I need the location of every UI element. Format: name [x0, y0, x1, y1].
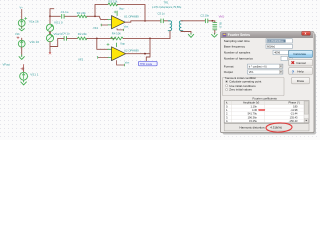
feedback wire up and over: [95, 4, 108, 16]
row2 capacitor C4: [64, 37, 66, 41]
group box: transient initial condition: [223, 77, 285, 95]
THD label box: [139, 61, 158, 66]
combo: number of samples: [273, 50, 292, 54]
svg-text:Phase (°): Phase (°): [289, 101, 300, 105]
svg-text:Vop: Vop: [119, 7, 124, 11]
field: sampling start time: [266, 39, 292, 43]
svg-text:16.66666666m: 16.66666666m: [267, 40, 284, 43]
wire VG1-VG2: [49, 31, 51, 34]
svg-text:V1b 16: V1b 16: [30, 40, 40, 44]
transformer TR1 primary coil: [168, 21, 171, 31]
row1 wire VG1 to C1: [50, 15, 60, 17]
wire VG2 down and to C4: [50, 38, 61, 46]
wire R4 to transformer/output node: [123, 37, 170, 39]
svg-text:541.79u: 541.79u: [248, 112, 258, 116]
svg-text:U1 OPA689: U1 OPA689: [124, 15, 139, 19]
wire: [21, 26, 23, 27]
node junction: [94, 15, 96, 17]
title bar bg: [221, 32, 314, 38]
svg-text:C4 1u: C4 1u: [62, 32, 70, 36]
svg-text:4.36: 4.36: [252, 108, 258, 112]
scrollbar: [304, 101, 309, 123]
feedback wire to output: [117, 4, 145, 21]
red underline annotation row 1: [258, 109, 265, 112]
svg-text:4096: 4096: [274, 51, 280, 55]
button Draw: [292, 77, 310, 84]
svg-text:Output: Output: [224, 70, 233, 74]
button Cancel: [289, 59, 313, 66]
button Calculate: [289, 50, 313, 57]
svg-text:Von: Von: [125, 60, 130, 64]
load RL (striped): [214, 21, 216, 22]
svg-text:VFout: VFout: [3, 63, 11, 67]
svg-text:VG2 0: VG2 0: [54, 32, 63, 36]
spin: number of harmonics: [281, 56, 292, 60]
svg-text:x: x: [305, 32, 307, 36]
svg-text:-156.43: -156.43: [289, 119, 298, 123]
svg-text:R3 12k: R3 12k: [109, 0, 118, 4]
svg-text:Sampling start time: Sampling start time: [224, 39, 250, 43]
source V1a: [18, 20, 25, 27]
svg-text:Zero initial values: Zero initial values: [229, 88, 252, 92]
power pins U2: [116, 43, 118, 47]
ground secondary: [188, 33, 193, 37]
op-amp U1 input stubs: [108, 19, 112, 25]
svg-text:C1 1u: C1 1u: [61, 10, 69, 14]
field labels: [224, 39, 254, 74]
svg-text:Help: Help: [297, 70, 304, 74]
svg-text:V1a 16: V1a 16: [29, 20, 39, 24]
combo: format: [248, 64, 283, 68]
button Help: [289, 68, 313, 75]
svg-text:Number of harmonics: Number of harmonics: [224, 57, 254, 61]
column separator: [232, 101, 265, 123]
radio 2: [226, 85, 228, 87]
unconnected mark: [49, 52, 51, 54]
header row: [225, 101, 309, 104]
svg-text:VF2: VF2: [78, 58, 84, 62]
svg-text:15.25u: 15.25u: [249, 119, 257, 123]
junction: [49, 32, 51, 34]
transformer TR1 secondary coil: [179, 21, 182, 31]
op-amp U2: [112, 47, 126, 61]
wire R2 to node: [87, 37, 115, 39]
svg-text:Vop: Vop: [120, 42, 125, 46]
svg-text:L1/Ts Inductance 79.58u: L1/Ts Inductance 79.58u: [152, 5, 182, 9]
wire jog into op-amp inv input: [99, 16, 107, 19]
svg-text:1.10n: 1.10n: [251, 104, 258, 108]
ground: [19, 55, 24, 59]
VF2 pin wire: [98, 56, 108, 58]
svg-text:V1b: V1b: [15, 32, 20, 36]
svg-text:Calculate: Calculate: [293, 52, 306, 56]
svg-text:?: ?: [292, 69, 295, 74]
svg-text:Base frequency: Base frequency: [224, 45, 246, 49]
svg-text:196.36n: 196.36n: [248, 115, 258, 119]
svg-text:Fourier Series: Fourier Series: [228, 33, 250, 37]
schematic background: [0, 0, 320, 140]
table: [224, 101, 309, 123]
red ellipse annotation: [266, 122, 292, 132]
power pins U1: [116, 11, 118, 16]
output wire U1: [125, 21, 160, 22]
source VG2: [46, 35, 53, 42]
wire node down to op-amp2 input: [97, 38, 108, 49]
wire from VG1 up to row1: [49, 16, 51, 24]
svg-text:Cancel: Cancel: [296, 61, 306, 65]
svg-text:R4 10k: R4 10k: [112, 32, 121, 36]
svg-text:TR1: TR1: [164, 0, 169, 4]
source VS1 (bottom-left): [23, 65, 25, 67]
wire stub dead end: [49, 47, 51, 54]
wire C1 to R1: [65, 15, 78, 17]
wire: [21, 10, 23, 20]
combo: output: [248, 70, 283, 74]
svg-text:135.43: 135.43: [290, 115, 298, 119]
svg-text:R1 24k: R1 24k: [77, 11, 86, 15]
ground under VS1: [21, 80, 27, 85]
svg-text:THD mode: THD mode: [140, 63, 153, 66]
svg-text:4.: 4.: [226, 119, 228, 123]
svg-text:U2 OPA689: U2 OPA689: [124, 48, 139, 52]
svg-text:Fourier coefficients: Fourier coefficients: [253, 97, 278, 101]
radio 1: [226, 81, 228, 83]
resistor R1: [77, 15, 87, 18]
svg-text:V+: V+: [20, 6, 24, 10]
field: base frequency: [266, 44, 292, 48]
plus terminal: [25, 17, 27, 19]
dialog body: [221, 32, 315, 133]
svg-text:Von: Von: [124, 25, 129, 29]
ground load: [212, 33, 218, 37]
op-amp U1: [112, 16, 126, 29]
svg-text:VF1: VF1: [249, 70, 254, 74]
row lines: [224, 108, 303, 119]
svg-text:-11.98: -11.98: [290, 108, 298, 112]
resistor R2: [77, 37, 87, 40]
svg-text:Amplitude (V): Amplitude (V): [243, 101, 259, 105]
svg-text:60[Hz]: 60[Hz]: [267, 45, 275, 49]
resistor R3 feedback: [108, 3, 118, 6]
wire R1 to node: [87, 15, 100, 17]
svg-text:k.: k.: [226, 101, 228, 105]
close button: [302, 31, 311, 35]
svg-text:180: 180: [293, 104, 298, 108]
svg-text:R2 24k: R2 24k: [78, 32, 87, 36]
svg-text:b * cos(kwt + fi): b * cos(kwt + fi): [249, 64, 267, 68]
svg-text:Format: Format: [224, 64, 234, 68]
svg-text:-21.44: -21.44: [290, 112, 298, 116]
capacitor C2: [205, 19, 207, 23]
secondary bottom wire: [181, 31, 191, 34]
ground: [19, 27, 24, 30]
svg-text:Harmonic distortion:: Harmonic distortion:: [240, 125, 266, 129]
svg-text:C2 10n: C2 10n: [201, 13, 210, 17]
radio 3: [226, 89, 228, 91]
svg-text:3.: 3.: [226, 115, 228, 119]
dialog shadow: [223, 34, 317, 135]
table data: [226, 104, 298, 123]
svg-text:2.: 2.: [226, 112, 228, 116]
svg-text:C5 1u: C5 1u: [158, 12, 166, 16]
wire to THD label: [146, 54, 150, 61]
svg-text:VF1: VF1: [93, 26, 99, 30]
svg-text:RL 8: RL 8: [218, 22, 221, 28]
svg-text:0.: 0.: [226, 104, 228, 108]
stub wire up from node: [50, 9, 54, 17]
svg-text:VG1 0: VG1 0: [54, 20, 63, 24]
VF1 pin wire: [102, 24, 108, 26]
wire: [21, 47, 23, 55]
source V1b: [18, 40, 25, 47]
svg-text:VM1: VM1: [219, 15, 225, 19]
footer bar: [224, 124, 309, 131]
wire: [21, 38, 23, 40]
capacitor C1: [62, 14, 64, 18]
plus terminal: [17, 37, 19, 39]
svg-text:1.: 1.: [226, 108, 228, 112]
svg-text:Number of samples: Number of samples: [224, 51, 251, 55]
primary bottom wire: [169, 31, 171, 39]
op-amp U2 input stubs: [108, 49, 112, 57]
svg-text:Draw: Draw: [297, 79, 305, 83]
source VG1: [46, 24, 53, 31]
secondary top wire: [181, 20, 205, 22]
title icon: [223, 33, 227, 37]
svg-text:VS1 1: VS1 1: [30, 72, 39, 76]
output wire U2: [126, 38, 150, 53]
svg-text:4.316(%): 4.316(%): [270, 125, 282, 129]
capacitor C5: [161, 19, 163, 23]
resistor R4 feedback: [111, 37, 124, 40]
